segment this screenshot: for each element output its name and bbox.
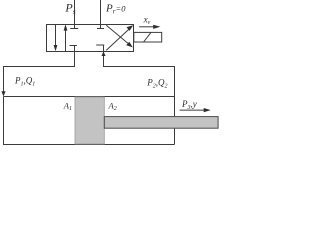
svg-text:P1,Q1: P1,Q1 — [14, 76, 35, 88]
svg-text:P2,Q2: P2,Q2 — [146, 78, 167, 90]
